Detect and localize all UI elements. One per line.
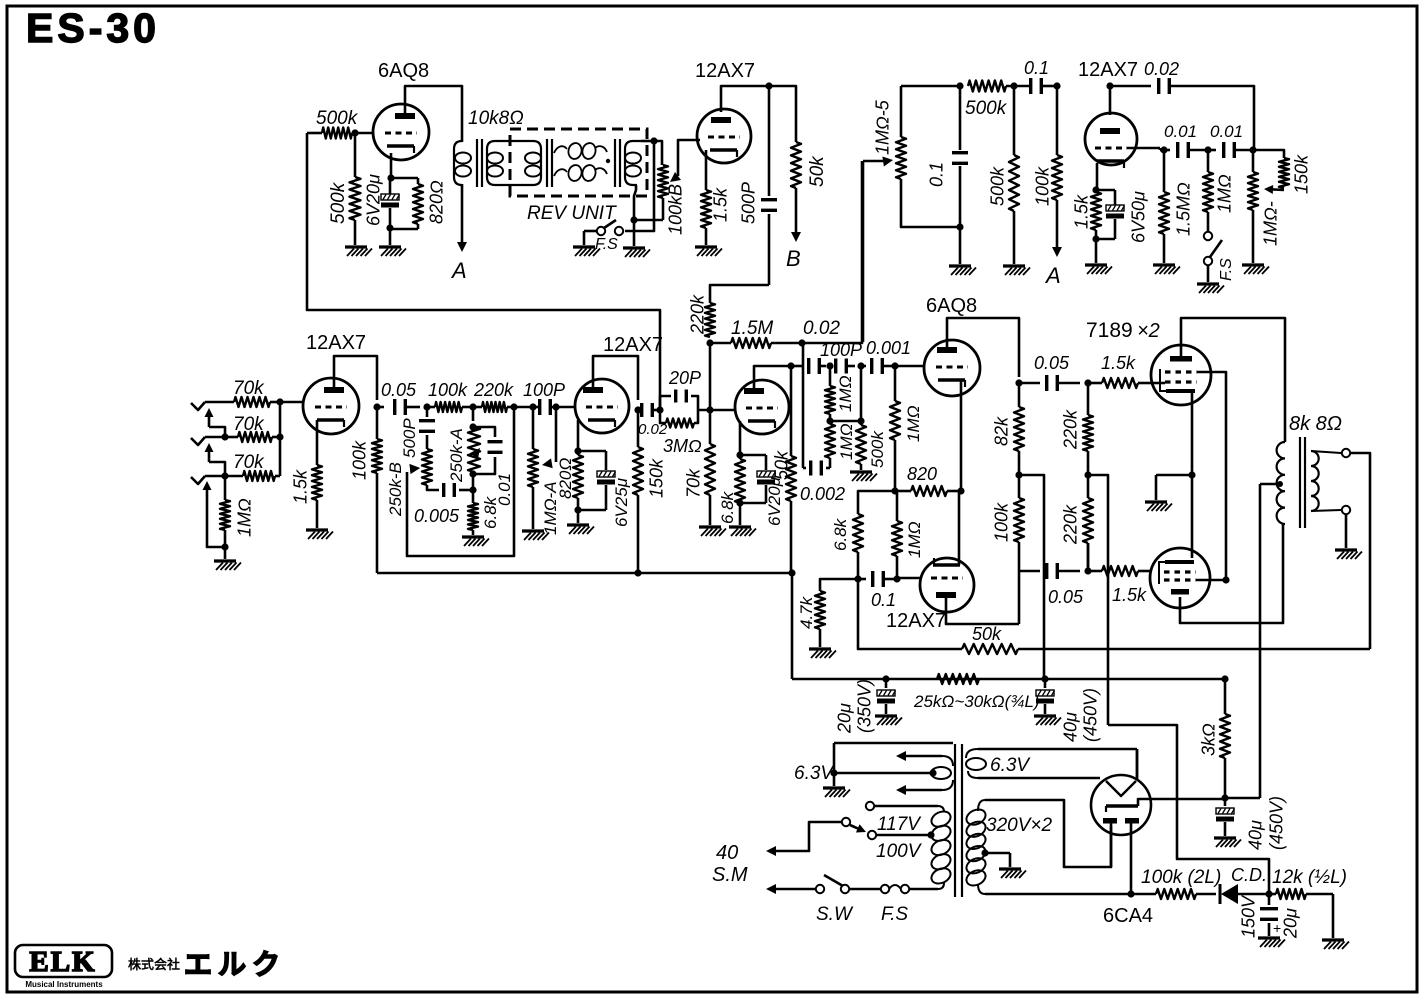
wire primary to A	[457, 186, 467, 252]
node grid lower	[893, 575, 900, 582]
tube 6AQ8 phase inverter	[924, 295, 980, 396]
OPT core	[1300, 437, 1305, 528]
wire 0.002 to recovery node	[802, 343, 805, 468]
pot 100kB	[658, 165, 686, 235]
wire 1.5M node down	[709, 343, 712, 410]
wire send line down-left	[307, 133, 660, 410]
svg-text:3kΩ: 3kΩ	[1199, 723, 1219, 756]
resistor 4.7k	[797, 579, 858, 647]
resistor 500k shunt	[988, 86, 1020, 264]
wire selector	[766, 822, 842, 856]
resistor 500k series	[307, 108, 359, 139]
svg-text:100V: 100V	[876, 841, 923, 862]
node 1M bottom	[221, 543, 228, 550]
ground 4.7k	[809, 649, 836, 658]
svg-text:500k: 500k	[988, 166, 1008, 206]
svg-text:1.5k: 1.5k	[1112, 585, 1147, 605]
svg-text:250k-B: 250k-B	[386, 462, 405, 517]
svg-text:220k: 220k	[473, 380, 514, 400]
node grid third	[698, 406, 735, 413]
input jack 1	[191, 402, 234, 410]
pot 1Mohm-minus	[1248, 150, 1281, 263]
resistor 6.8k third	[718, 455, 745, 525]
svg-text:8k 8Ω: 8k 8Ω	[1289, 413, 1342, 435]
resistor 500k pi	[856, 421, 887, 470]
resistor 500k grid leak	[328, 133, 361, 245]
node cathode3	[736, 451, 743, 458]
svg-text:S.W: S.W	[816, 904, 854, 925]
svg-text:0.1: 0.1	[871, 590, 896, 610]
svg-text:6V20μ: 6V20μ	[765, 476, 784, 526]
node pi out	[1015, 379, 1022, 386]
svg-text:A: A	[1044, 263, 1061, 288]
wire bus down	[791, 573, 794, 679]
reverb output core	[615, 139, 620, 187]
node 0.001 left	[857, 362, 864, 369]
svg-text:500k: 500k	[868, 430, 887, 468]
node plate second	[634, 406, 641, 413]
ground 500k	[345, 247, 372, 256]
fuse F.S	[881, 885, 909, 925]
svg-text:10k8Ω: 10k8Ω	[468, 108, 524, 129]
resistor 500k top right	[965, 81, 1008, 120]
resistor 70k second	[225, 414, 280, 442]
wire plate 7189b	[1180, 524, 1283, 623]
resistor 70k grid leak	[684, 410, 716, 525]
ground fs right	[1197, 265, 1224, 293]
resistor 70k third	[225, 452, 280, 481]
resistor 12k halfL	[1269, 867, 1347, 899]
switch F.S right	[1204, 232, 1235, 281]
transformer 10k8 core	[477, 139, 482, 187]
svg-text:320V×2: 320V×2	[986, 815, 1052, 836]
label B	[786, 246, 801, 271]
wire 500P to 220k	[710, 285, 769, 303]
svg-text:0.1: 0.1	[927, 162, 947, 187]
ground 7189 cathode	[1145, 502, 1172, 511]
svg-text:1MΩ: 1MΩ	[837, 423, 856, 460]
node 20P left	[656, 406, 663, 413]
ground input	[214, 547, 241, 570]
ground cathode mixer	[1085, 265, 1112, 274]
svg-text:ES-30: ES-30	[26, 5, 160, 51]
capacitor 20P	[660, 368, 701, 410]
title ES-30	[26, 5, 160, 51]
capacitor 6V25u	[578, 451, 631, 527]
svg-text:12AX7: 12AX7	[603, 334, 663, 356]
wire plate second	[593, 356, 638, 400]
ground cathode	[379, 228, 406, 256]
node 500k right	[1010, 82, 1017, 89]
svg-text:F.S: F.S	[881, 904, 908, 925]
node tone out	[1249, 146, 1256, 153]
label A right	[1044, 263, 1061, 288]
jack3 contact	[203, 481, 226, 547]
svg-text:500k: 500k	[965, 98, 1008, 119]
resistor 100k tone	[427, 380, 473, 412]
reverb spring bottom	[554, 164, 607, 182]
wire 50k to B arrow	[791, 188, 801, 242]
label 40 SM	[712, 842, 748, 886]
svg-text:500k: 500k	[316, 108, 359, 129]
capacitor 6V50u	[1096, 190, 1149, 243]
svg-text:0.002: 0.002	[800, 484, 845, 504]
capacitor 0.1 coupling	[1006, 58, 1056, 94]
wire reverb top to pot	[654, 141, 662, 165]
jack2 contact	[205, 443, 226, 476]
resistor 100k mixer	[1033, 86, 1063, 206]
wire sec top	[1311, 449, 1370, 649]
ground 0.1	[949, 227, 976, 275]
ground 40u b	[1214, 838, 1241, 847]
wire plate pi	[947, 318, 1019, 377]
node 0.1 left	[956, 82, 963, 89]
resistor 1.5Mohm	[1159, 150, 1194, 263]
wire sec bottom	[1311, 506, 1350, 548]
ground 1.5M	[1153, 265, 1180, 274]
ground 500k shunt	[1003, 266, 1030, 275]
resistor 25k-30k	[913, 674, 1040, 711]
resistor 220k g2a	[1061, 383, 1094, 475]
node 0.1 left lower	[854, 575, 861, 582]
reverb unit box	[510, 129, 647, 224]
svg-text:0.005: 0.005	[414, 506, 460, 526]
wire plate 7189a	[1181, 318, 1285, 442]
pot 250k-A treble	[447, 407, 480, 483]
input jack 2	[191, 437, 225, 445]
wire grid second	[556, 406, 575, 409]
wire rect to tap	[1225, 797, 1260, 800]
reverb spring top	[554, 142, 610, 163]
node cathode	[387, 174, 394, 181]
capacitor 0.1 decouple	[927, 86, 969, 227]
node cathode mixer low	[1092, 235, 1099, 242]
resistor 820ohm second	[556, 451, 583, 510]
resistor 820ohm cathode	[390, 178, 447, 229]
svg-text:0.05: 0.05	[381, 380, 417, 400]
wire node to 50k	[769, 86, 796, 142]
svg-text:12AX7: 12AX7	[886, 610, 946, 632]
wiper 250kA	[470, 448, 480, 459]
transformer 10k8ohm primary	[454, 140, 471, 187]
svg-text:1MΩ: 1MΩ	[1215, 174, 1235, 213]
resistor 1.5k g1 lower	[1088, 566, 1150, 605]
svg-text:1MΩ: 1MΩ	[836, 375, 855, 412]
node 220k bottom	[706, 339, 713, 346]
svg-text:40μ: 40μ	[1061, 712, 1081, 742]
capacitor 0.05 coupling	[377, 380, 420, 415]
capacitor 20u 150V	[1239, 894, 1301, 939]
svg-text:6AQ8: 6AQ8	[378, 60, 429, 82]
ground 20u 150V	[1258, 938, 1285, 947]
wire plate lower	[946, 598, 1019, 624]
tube 6CA4 rectifier	[1091, 749, 1153, 927]
wiper 1M-5	[863, 157, 893, 167]
ground 500k pi	[850, 472, 877, 481]
output transformer label	[1289, 413, 1342, 435]
resistor 6.8k lower	[831, 491, 895, 579]
OPT secondary	[1311, 451, 1319, 511]
svg-text:70k: 70k	[233, 378, 265, 399]
resistor 82k	[992, 383, 1025, 475]
tube 12AX7 pi lower	[920, 558, 974, 612]
node bus 50k	[788, 569, 795, 576]
node cathode3 low	[736, 499, 743, 506]
svg-text:820Ω: 820Ω	[427, 180, 447, 224]
input jack 3	[191, 476, 225, 484]
svg-text:100k: 100k	[350, 440, 370, 480]
capacitor 6V20u third	[740, 455, 784, 526]
logo ELK box	[15, 945, 112, 978]
wire recovery to pot	[802, 161, 862, 343]
svg-text:6.3V: 6.3V	[990, 755, 1031, 776]
svg-text:150k: 150k	[647, 458, 667, 498]
wire grid 6AQ8	[355, 132, 373, 135]
wire screen bus	[792, 678, 1225, 681]
svg-text:1MΩ: 1MΩ	[905, 521, 924, 558]
resistor 1Mohm lower	[892, 491, 924, 579]
svg-text:1.5k: 1.5k	[1072, 194, 1092, 229]
wire cathode 7189a	[1191, 391, 1194, 558]
svg-text:0.01: 0.01	[1210, 122, 1243, 141]
svg-text:12AX7: 12AX7	[306, 332, 366, 354]
svg-text:0.05: 0.05	[1048, 587, 1084, 607]
svg-text:150k: 150k	[1292, 154, 1312, 194]
capacitor 20u 350V	[835, 679, 896, 734]
node 820 left	[891, 487, 898, 494]
svg-text:Musical Instruments: Musical Instruments	[25, 980, 103, 989]
svg-text:1.5k: 1.5k	[291, 469, 311, 504]
transformer 10k8ohm label	[468, 108, 524, 129]
switch S.W	[816, 875, 881, 925]
capacitor 0.02 mixer	[1110, 59, 1254, 150]
resistor 1Mohm fs	[1203, 150, 1235, 231]
capacitor 500P coupling	[739, 86, 778, 285]
svg-text:0.02: 0.02	[803, 318, 840, 339]
svg-text:7189: 7189	[1086, 319, 1133, 342]
svg-text:12AX7: 12AX7	[695, 60, 755, 82]
svg-text:1.5M: 1.5M	[731, 318, 773, 339]
capacitor 100P pi	[791, 340, 862, 374]
svg-text:1MΩ-: 1MΩ-	[1261, 201, 1281, 246]
svg-text:6V20μ: 6V20μ	[364, 174, 384, 226]
node rect out	[1221, 794, 1228, 801]
svg-text:70k: 70k	[684, 468, 704, 498]
node tone4	[529, 403, 538, 410]
wire 82k node right	[1019, 475, 1044, 679]
node 70k2	[276, 433, 283, 440]
wire B plus bus	[377, 572, 792, 575]
svg-text:25kΩ~30kΩ(¾L): 25kΩ~30kΩ(¾L)	[913, 692, 1040, 711]
svg-text:6.8k: 6.8k	[481, 495, 500, 529]
PT primary	[929, 806, 953, 889]
reverb input core	[547, 139, 552, 187]
cathode mixer	[1096, 163, 1097, 190]
capacitor 0.05 lower	[1019, 563, 1084, 607]
node 0.1 right	[1053, 82, 1060, 89]
svg-text:0.02: 0.02	[1144, 59, 1179, 79]
svg-text:20P: 20P	[668, 368, 701, 388]
logo kabushiki kaisha	[128, 957, 180, 972]
wire 6CA4 cathode	[1138, 798, 1225, 806]
label A	[450, 258, 467, 283]
svg-text:6.3V: 6.3V	[794, 763, 835, 784]
svg-text:1.5k: 1.5k	[711, 187, 731, 222]
node cathode2 low	[574, 506, 581, 513]
node recovery	[798, 339, 805, 346]
node jack2	[221, 433, 228, 440]
diode C.D.	[1220, 865, 1269, 904]
resistor 70k first	[233, 378, 280, 407]
resistor 6.8k tone	[468, 474, 500, 535]
node 70k1	[276, 398, 283, 405]
ground secondary	[1335, 550, 1362, 559]
tap 117V	[866, 802, 938, 835]
ground tone	[462, 537, 489, 546]
resistor 1.5k mixer	[1072, 190, 1102, 263]
node tone3	[510, 403, 533, 410]
resistor 150k plate load2	[633, 410, 667, 573]
wiper 1M-A	[542, 407, 556, 468]
svg-text:REV UNIT: REV UNIT	[527, 203, 617, 224]
wire 100k to A	[1052, 200, 1062, 257]
resistor 100k 2L	[1131, 867, 1221, 899]
ground cathode first	[306, 530, 333, 539]
wire 6CA4 plate left	[1110, 823, 1113, 867]
svg-text:40: 40	[716, 842, 738, 864]
node 20u	[882, 675, 889, 682]
node bus 150k	[634, 569, 641, 576]
HT top lead	[985, 800, 1111, 867]
node 500k pi top	[830, 366, 865, 425]
svg-text:20μ: 20μ	[835, 703, 855, 734]
svg-text:100P: 100P	[820, 340, 862, 360]
tube 7189 upper	[1086, 319, 1211, 405]
node cathode 7189	[1188, 471, 1195, 478]
resistor 1Mohm pi3	[890, 366, 923, 491]
capacitor 6V20u cathode	[364, 174, 400, 228]
OPT primary tap	[1260, 481, 1283, 487]
ground 40u a	[1034, 716, 1061, 725]
logo musical instruments	[25, 980, 103, 989]
wire grid bus	[279, 402, 282, 476]
node 1M1 top	[820, 362, 834, 369]
tube 12AX7 first stage	[303, 332, 366, 434]
capacitor 500P treble	[400, 407, 435, 458]
resistor 50k feedback	[858, 579, 1370, 654]
svg-text:50k: 50k	[972, 624, 1002, 644]
svg-text:B: B	[786, 246, 801, 271]
wire 220k node right	[1088, 475, 1108, 725]
svg-text:+: +	[1273, 920, 1281, 936]
node grid pi	[891, 362, 924, 369]
svg-text:100k: 100k	[992, 502, 1012, 542]
svg-text:40μ: 40μ	[1246, 820, 1266, 850]
svg-text:6.8k: 6.8k	[831, 517, 850, 551]
wire preamp B feed	[1108, 725, 1269, 895]
ground volume	[522, 531, 549, 540]
wire wiper to recovery line	[862, 161, 865, 342]
node tone2	[469, 403, 476, 410]
node cathode bottom	[386, 224, 393, 231]
label 320Vx2	[986, 815, 1052, 836]
svg-text:20μ: 20μ	[1281, 908, 1301, 939]
resistor 1Mohm input	[220, 476, 255, 547]
svg-text:0.05: 0.05	[1034, 353, 1070, 373]
svg-text:117V: 117V	[877, 814, 922, 835]
tube 6AQ8 reverb driver	[373, 60, 429, 160]
tube 12AX7 third stage	[735, 380, 946, 632]
wire 100kB bottom	[630, 185, 663, 246]
svg-text:0.01: 0.01	[1164, 122, 1197, 141]
ground reverb	[623, 248, 650, 257]
resistor 3kohm	[1199, 679, 1231, 798]
ground cathode2	[567, 510, 594, 534]
PT secondary 320V	[964, 800, 988, 894]
HT ct	[981, 849, 1010, 867]
wire cathode gnd	[1156, 475, 1192, 500]
resistor 50k to B	[791, 142, 828, 188]
node 7189 grid node	[1084, 379, 1091, 386]
capacitor 0.05 pi out	[1019, 353, 1080, 391]
svg-text:×2: ×2	[1137, 320, 1160, 342]
wire screen 7189b	[1196, 576, 1230, 583]
ground cathode3	[729, 527, 756, 536]
capacitor 0.005	[414, 483, 473, 526]
tube 12AX7 second stage	[575, 334, 663, 433]
resistor 1.5k cathode	[701, 150, 731, 245]
wire grid first	[280, 401, 303, 404]
svg-text:500P: 500P	[400, 418, 419, 458]
node 0.005 junction	[469, 486, 476, 493]
tube 12AX7 reverb recovery	[695, 60, 755, 163]
wire fs ground	[573, 231, 600, 256]
svg-text:F.S: F.S	[1218, 258, 1235, 281]
svg-text:6V50μ: 6V50μ	[1129, 191, 1149, 243]
svg-text:6V25μ: 6V25μ	[612, 477, 631, 527]
cathode second	[577, 420, 580, 451]
svg-text:(350V): (350V)	[855, 679, 875, 733]
svg-text:C.D.: C.D.	[1231, 865, 1267, 885]
svg-text:100kB: 100kB	[666, 184, 686, 235]
resistor 1Mohm pi1	[825, 366, 855, 414]
node 0.1 bottom	[956, 223, 963, 230]
switch F.S reverb	[595, 220, 623, 253]
svg-text:(450V): (450V)	[1081, 688, 1101, 742]
svg-text:(450V): (450V)	[1267, 796, 1287, 850]
svg-text:1MΩ: 1MΩ	[235, 498, 255, 537]
svg-text:82k: 82k	[992, 416, 1012, 446]
tube 12AX7 mixer	[1078, 59, 1138, 168]
node 820 right	[957, 487, 964, 494]
node plate mixer	[1106, 82, 1113, 89]
svg-text:820Ω: 820Ω	[556, 458, 575, 499]
wire plate 6AQ8 to transformer	[405, 86, 462, 140]
resistor 1.5k first	[291, 465, 323, 528]
node jack3	[221, 472, 228, 479]
node plate supply	[765, 82, 772, 89]
wire cathode 6AQ8	[390, 153, 393, 178]
resistor 3Mohm	[660, 410, 702, 456]
node plate first	[373, 403, 380, 410]
label 0.02 recovery	[803, 318, 840, 339]
svg-text:株式会社: 株式会社	[128, 957, 180, 972]
capacitor 100P pi2	[834, 359, 855, 374]
resistor 100k plate load1	[350, 407, 383, 573]
ground cathode 12AX7	[695, 247, 722, 256]
svg-text:220k: 220k	[688, 294, 708, 335]
wire plate mixer	[1109, 86, 1112, 115]
